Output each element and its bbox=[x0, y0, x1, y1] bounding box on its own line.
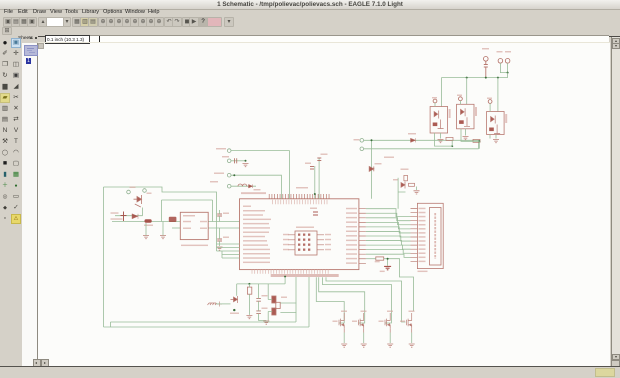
wire C9 down bbox=[259, 314, 267, 321]
label U1 left pin text 2 bbox=[243, 210, 265, 211]
wire Q6 vert bbox=[398, 178, 405, 209]
ground GND T1 bbox=[341, 344, 347, 347]
label JP2 row4 bbox=[210, 181, 218, 182]
capacitor C9 bbox=[256, 311, 261, 314]
label U1 left pin text 7 bbox=[243, 232, 269, 233]
label Q2 bbox=[230, 313, 239, 314]
wire JP3-1 east bbox=[364, 139, 480, 141]
label LCD1 pin 13 bbox=[419, 257, 426, 259]
wire OK drains 1 bbox=[435, 133, 453, 146]
optocoupler OK3 box bbox=[487, 112, 505, 135]
label OK1 bbox=[449, 109, 451, 118]
label Q1 bbox=[281, 297, 287, 298]
wire net psu input row bbox=[112, 221, 180, 223]
label U1 left pin text 9 bbox=[243, 240, 267, 241]
label OK3 pins bbox=[487, 98, 492, 99]
label X2 bbox=[482, 48, 489, 49]
label OK2 pins bbox=[457, 95, 462, 96]
transistor T4 bbox=[407, 313, 412, 333]
ic U1 top pin name ticks bbox=[273, 200, 327, 205]
ground GND R7 heavy bbox=[384, 266, 391, 269]
capacitor C8 bbox=[256, 298, 261, 301]
label U1 right pin text 7 bbox=[346, 235, 357, 236]
pin OK3 top bbox=[488, 100, 492, 104]
wire reset vert bbox=[236, 284, 238, 296]
wire OK2 down bbox=[465, 129, 467, 136]
wire net VIN loop left edge bbox=[103, 187, 105, 327]
wire bus drop OK2 bbox=[466, 78, 468, 105]
wire supply bus bbox=[441, 77, 507, 79]
label transistor T1 name bbox=[333, 321, 338, 322]
label SV1 right pin names bbox=[325, 234, 331, 250]
diode D1 on wire bbox=[411, 138, 416, 142]
ground GND under C12 bbox=[217, 247, 223, 250]
wire T4 source down bbox=[411, 333, 413, 344]
label Q6 name bbox=[393, 179, 398, 180]
junction reset dot bbox=[233, 309, 235, 311]
pin OK1 top bbox=[433, 99, 437, 103]
wire net rail riser right2 bbox=[308, 277, 310, 327]
label above top pins bbox=[296, 187, 308, 188]
capacitor C16 bbox=[317, 158, 321, 161]
ground GND T4 bbox=[409, 344, 415, 347]
wire Q6 gnd stub bbox=[416, 187, 418, 191]
connector LCD1 inner body bbox=[430, 208, 442, 266]
optocoupler OK3 inner marks bbox=[489, 116, 500, 134]
junction bus dot1 bbox=[466, 77, 468, 79]
wire U1 to LCD row 5 bbox=[366, 227, 411, 233]
wire T2 source down bbox=[363, 333, 365, 344]
connector SV1 left pins bbox=[288, 235, 295, 250]
label R10 top bbox=[384, 157, 394, 158]
label OK1 pins bbox=[432, 97, 437, 98]
transistor Q5 symbol bbox=[134, 195, 142, 207]
label U1 left pin text 3 bbox=[243, 214, 263, 215]
pin JP4-1 bbox=[127, 190, 131, 194]
label D1 bbox=[408, 133, 416, 134]
label U1 right pin text 10 bbox=[346, 249, 357, 250]
wire net rail riser right bbox=[295, 277, 297, 322]
wire net psu left pin2 bbox=[172, 227, 180, 229]
wire JP3-2 east long bbox=[364, 141, 479, 149]
ground GND C9 bbox=[263, 321, 269, 324]
label U1 left pin text 12 bbox=[243, 253, 270, 254]
ground GND T2 bbox=[361, 344, 367, 347]
wire R6 top bbox=[248, 284, 250, 287]
label C9 bbox=[262, 308, 268, 309]
wire U1 to LCD row 9 bbox=[366, 245, 411, 249]
wire OK3 down bbox=[495, 135, 497, 139]
capacitor C13 inner bbox=[313, 212, 318, 215]
ground GND T3 bbox=[387, 344, 393, 347]
wire crystal left bbox=[268, 284, 272, 321]
pin supply X2 bbox=[484, 57, 489, 62]
label U1 right pin text 6 bbox=[346, 231, 357, 232]
connector SV1 pin grid bbox=[298, 234, 310, 251]
wire JP2-1 to U1 bbox=[231, 151, 289, 199]
label U1 right pin text 13 bbox=[346, 262, 357, 263]
label R7 value bbox=[380, 271, 385, 272]
pin OK2 top bbox=[459, 97, 463, 101]
wire U1 left bundle drop bbox=[216, 222, 218, 251]
junction LED branch dot bbox=[371, 139, 373, 141]
label L1 D3 bbox=[254, 189, 261, 190]
ground GND JP2 bbox=[243, 164, 249, 167]
label PS1 pin text row1 bbox=[183, 215, 195, 216]
optocoupler OK2 box bbox=[457, 104, 475, 129]
label SV1 bbox=[296, 227, 314, 228]
label U1 left pin text 13 bbox=[243, 257, 270, 258]
label X4 bbox=[505, 51, 511, 52]
junction JP2-3 dot bbox=[233, 174, 235, 176]
label JP2 row1 bbox=[216, 148, 226, 149]
label C10 bbox=[111, 212, 119, 213]
wire net loop bottom rail bbox=[104, 326, 310, 328]
wire net psu right pin2 bbox=[208, 227, 239, 229]
label PS1 value text bbox=[181, 245, 208, 246]
wire JP2-4 stub bbox=[231, 185, 256, 187]
label U1 right pin text 4 bbox=[346, 221, 357, 222]
wire U1 to LCD row 1 bbox=[366, 209, 411, 217]
label JP2 row3 bbox=[214, 173, 224, 174]
capacitor C15 bbox=[310, 167, 314, 170]
optocoupler OK1 inner marks bbox=[433, 111, 444, 129]
label OK3 bbox=[505, 114, 507, 123]
label C11 bbox=[223, 213, 229, 214]
pin supply X4 bbox=[505, 59, 510, 64]
pin supply X3 bbox=[498, 59, 503, 64]
wire OK2 circle stub bbox=[459, 101, 461, 105]
wire C12 stub bbox=[219, 228, 221, 246]
wire OK1 down bbox=[440, 133, 442, 139]
wire R6 bottom bbox=[248, 294, 250, 315]
label U1 name bbox=[241, 192, 266, 194]
label LCD1 pin 1 bbox=[419, 208, 426, 210]
wire net loop top bbox=[104, 187, 217, 222]
label U1 left pin text 11 bbox=[243, 249, 270, 250]
resistor R10 bbox=[404, 175, 408, 180]
label LCD1 value below bbox=[418, 271, 428, 272]
label PS1 pin text right2 bbox=[200, 228, 207, 229]
wire C11 stub bbox=[219, 210, 221, 222]
capacitor C10 polarized bbox=[121, 212, 127, 222]
transistor Q6 marks bbox=[401, 182, 415, 189]
wire AREF vertical 1 bbox=[314, 166, 316, 199]
junction R7 dot bbox=[387, 258, 389, 260]
transistor Q2 reset marks bbox=[231, 296, 238, 303]
label JP2 row2 bbox=[222, 156, 229, 157]
reference cross mark bbox=[217, 302, 222, 307]
pin header JP2-4 bbox=[227, 184, 231, 188]
transistor T2 bbox=[359, 313, 364, 333]
wire net psu input row upper bbox=[115, 208, 143, 216]
wire JP2-2 to gnd bbox=[231, 160, 246, 162]
wire net left drop bbox=[161, 200, 163, 222]
resistor R9 bbox=[473, 139, 480, 142]
label T2 drain bbox=[361, 311, 367, 312]
wire net bottom rail 2 bbox=[111, 322, 297, 327]
label U1 left pin text 10 bbox=[243, 244, 268, 245]
label U1 right pin text 3 bbox=[346, 217, 357, 218]
wire U1 left bundle drop2 bbox=[221, 251, 223, 258]
label U1 left pin text 5 bbox=[243, 223, 269, 224]
wire R7 right bbox=[384, 259, 414, 311]
wire XTAL2 bbox=[280, 312, 296, 314]
ic U1 bottom pin ticks bbox=[252, 270, 328, 274]
label U1 right pin text 11 bbox=[346, 253, 357, 254]
ground GND Q6 bbox=[414, 191, 420, 194]
wire R7 left bbox=[366, 258, 376, 260]
wire LED branch bbox=[371, 140, 373, 199]
power module PS1 box bbox=[180, 212, 208, 239]
connector LCD1 left pin stubs bbox=[411, 209, 418, 262]
wire bus drop OK1 bbox=[440, 78, 442, 107]
wire U1 to LCD row 6 bbox=[366, 231, 411, 237]
optocoupler OK2 inner marks bbox=[459, 108, 470, 126]
wire gnd stub D4 bbox=[145, 223, 147, 236]
resistor R8 bbox=[446, 137, 453, 140]
wire X4 drop bbox=[507, 73, 509, 78]
pin header JP2-1 bbox=[227, 149, 231, 153]
label U1 left pin text 8 bbox=[243, 236, 265, 237]
wire gate M4 bbox=[326, 277, 406, 322]
wire U1 to LCD row 2 bbox=[366, 213, 411, 220]
label U1 right pin text 5 bbox=[346, 226, 357, 227]
wire net psu right pin1 bbox=[208, 221, 239, 223]
label LCD1 pin 2 bbox=[419, 212, 426, 214]
wire U1 to LCD row 7 bbox=[366, 236, 411, 241]
label transistor T4 name bbox=[400, 321, 405, 322]
junction XTAL rail dot bbox=[248, 283, 250, 285]
pin JP3-2 bbox=[360, 147, 364, 151]
label D4 below bbox=[144, 225, 153, 226]
label T4 drain bbox=[409, 311, 415, 312]
label LCD1 pin 9 bbox=[419, 240, 426, 242]
wire XTAL1 bbox=[280, 302, 296, 304]
label U1 right pin text 1 bbox=[346, 208, 357, 209]
label SV1 left pin names bbox=[283, 234, 289, 250]
wire gate M2 bbox=[319, 277, 365, 323]
pin header JP2-2 bbox=[227, 159, 231, 163]
junction bus dot2 bbox=[485, 77, 487, 79]
pin header JP2-3 bbox=[227, 173, 231, 177]
wire U1 to LCD row 3 bbox=[366, 218, 411, 225]
wire XTAL drop bbox=[284, 277, 286, 284]
fuse F1 bbox=[484, 61, 488, 78]
label VIN net name bbox=[111, 218, 123, 219]
wire U1 to LCD row 10 bbox=[366, 250, 411, 254]
capacitor C14 bbox=[235, 158, 237, 163]
wire C8C9 mid bbox=[258, 301, 260, 311]
label Q5 value bbox=[147, 193, 152, 194]
wire T1 source down bbox=[343, 333, 345, 344]
wire gate M3 bbox=[322, 277, 391, 323]
transistor T1 bbox=[339, 313, 344, 333]
ground GND under D4 bbox=[143, 236, 149, 239]
label PS1 pin text row3 bbox=[183, 228, 191, 229]
label LCD1 pin 14 bbox=[419, 261, 426, 263]
wire OK1 circle stub bbox=[434, 103, 436, 107]
transistor T3 bbox=[385, 313, 390, 333]
diode D2 body bbox=[132, 214, 138, 219]
ground GND OK3 bbox=[493, 140, 499, 143]
diode D4 body bbox=[145, 219, 152, 222]
ground GND R6 bbox=[246, 316, 252, 319]
wire gnd stub 2 bbox=[162, 222, 164, 236]
ic U1 box bbox=[240, 199, 359, 270]
capacitor C11 bbox=[217, 214, 222, 216]
earth ground E1 bbox=[208, 303, 217, 305]
label PS1 pin text right1 bbox=[200, 221, 207, 222]
junction XTAL dot bbox=[284, 276, 286, 278]
wire T3 source down bbox=[389, 333, 391, 344]
wire X3X4 join bbox=[500, 63, 507, 73]
label U1 right pin text 2 bbox=[346, 212, 357, 213]
label JP3 bbox=[354, 139, 360, 140]
pin JP3-1 bbox=[360, 139, 364, 143]
wire JP2-3 to U1 bbox=[231, 175, 281, 199]
connector SV1 box bbox=[295, 231, 317, 255]
label LCD1 pin 5 bbox=[419, 224, 426, 226]
label U1 left pin text 14 bbox=[243, 262, 270, 263]
label Q5 bbox=[130, 187, 136, 188]
label R7 bbox=[375, 261, 380, 262]
wire bus into U1 left bbox=[217, 244, 240, 258]
optocoupler OK1 box bbox=[430, 107, 448, 134]
wire AREF vertical 2 bbox=[318, 158, 320, 199]
wire R7 gnd stub bbox=[387, 259, 389, 266]
label LCD1 pin 4 bbox=[419, 220, 426, 222]
ic U1 bottom pin band bbox=[271, 274, 339, 277]
label PS1 pin text row2 bbox=[183, 221, 191, 222]
resistor R6 bbox=[247, 287, 251, 294]
ground GND OK1 bbox=[438, 140, 444, 143]
ground GND right of D4 bbox=[160, 236, 166, 239]
ic U1 right pin stubs bbox=[359, 209, 366, 264]
wire U1 to LCD row 4 bbox=[366, 222, 411, 229]
label LCD1 vertical text bbox=[434, 213, 436, 259]
junction OKs dot1 bbox=[451, 145, 453, 147]
pin JP4-2 bbox=[143, 189, 147, 193]
junction top U1 dot bbox=[314, 193, 316, 195]
label LCD1 pin 11 bbox=[419, 248, 426, 250]
wire net nested top bbox=[162, 200, 213, 222]
wire OK drains 2 bbox=[461, 129, 479, 149]
label Q6 bbox=[401, 169, 409, 170]
connector LCD1 outer box bbox=[417, 203, 443, 268]
label LCD1 pin 8 bbox=[419, 236, 426, 238]
label U1 left pin text 4 bbox=[243, 219, 271, 220]
resistor R7 bbox=[376, 257, 384, 260]
label transistor T3 name bbox=[379, 321, 384, 322]
label LED1 bbox=[375, 163, 382, 164]
label X3 bbox=[497, 51, 503, 52]
connector SV1 right pins bbox=[317, 235, 324, 250]
label C13 bbox=[310, 208, 317, 209]
label OK2 bbox=[475, 107, 477, 116]
wire OK3 circle stub bbox=[489, 103, 491, 111]
label LCD1 pin 10 bbox=[419, 244, 426, 246]
label LCD1 pin 3 bbox=[419, 216, 426, 218]
wire OK drains 3 bbox=[489, 135, 491, 139]
wire bus drop OK3 bbox=[497, 78, 499, 112]
inductor L1 bbox=[238, 184, 247, 186]
label LCD1 pin 6 bbox=[419, 228, 426, 230]
junction JP2-2 dot bbox=[245, 160, 247, 162]
label transistor T2 name bbox=[352, 321, 357, 322]
led LED1 bbox=[369, 167, 374, 172]
label U1 right pin text 8 bbox=[346, 240, 357, 241]
diode D3 bbox=[249, 184, 253, 188]
label U1 left pin text 1 bbox=[243, 206, 251, 207]
ic U1 top pin stubs bbox=[269, 194, 329, 199]
wire gate M1 bbox=[316, 277, 344, 323]
label C8 bbox=[262, 295, 268, 296]
label C16 bbox=[321, 154, 328, 155]
crystal Q1 body bbox=[272, 296, 280, 315]
junction bus dot3 bbox=[497, 77, 499, 79]
wire U1 to LCD row 11 bbox=[366, 254, 411, 257]
wire earth link bbox=[216, 303, 231, 305]
wire U1 to LCD row 8 bbox=[366, 241, 411, 246]
diode D5 body bbox=[169, 217, 177, 222]
label U1 right pin text 12 bbox=[346, 258, 357, 259]
label T1 drain bbox=[341, 311, 347, 312]
label C12 bbox=[223, 237, 229, 238]
wire C8 stub up bbox=[258, 284, 260, 299]
capacitor C12 bbox=[217, 239, 222, 241]
label U1 right pin text 9 bbox=[346, 244, 357, 245]
label LCD1 pin 7 bbox=[419, 232, 426, 234]
label LCD1 pin 12 bbox=[419, 252, 426, 254]
label C15 bbox=[305, 163, 311, 164]
junction OKs dot2 bbox=[478, 140, 480, 142]
wire XTAL rail bbox=[237, 283, 285, 285]
label T3 drain bbox=[387, 311, 393, 312]
label U1 left pin text 6 bbox=[243, 227, 270, 228]
junction X4 dot bbox=[507, 72, 509, 74]
ground GND OK2 bbox=[463, 137, 469, 140]
